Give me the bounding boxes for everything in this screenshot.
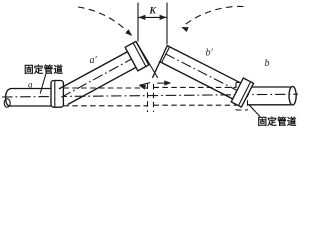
svg-text:固定管道: 固定管道 — [258, 116, 297, 128]
arrowhead of right swing arc — [181, 27, 189, 32]
K dimension left extension line — [137, 3, 139, 42]
svg-text:a: a — [28, 80, 33, 90]
pipe b' end inner ring line — [162, 47, 170, 62]
wire dashed lowered pipe b' bottom edge — [154, 104, 237, 106]
pipe a' lower edge — [68, 67, 138, 105]
svg-text:a′: a′ — [90, 55, 98, 66]
bell coupling on pipe a inner face line — [54, 81, 56, 107]
pipe b' centerline (dash-dot) — [165, 54, 241, 93]
arrowhead of left swing arc — [125, 29, 132, 36]
K dimension left arrowhead — [138, 15, 145, 20]
pipe b' end face line — [152, 45, 167, 78]
pipe b' upper edge — [167, 46, 242, 84]
svg-text:b: b — [265, 58, 270, 69]
bell on a' mouth face line extended — [136, 41, 158, 78]
pipe b' lower edge — [159, 61, 234, 99]
pipe a' upper edge — [59, 51, 129, 89]
K dimension right arrowhead — [160, 15, 167, 20]
wire dashed lowered pipe a' bottom edge — [63, 105, 147, 107]
svg-text:b′: b′ — [206, 48, 214, 59]
bell coupling on pipe b' lower end — [231, 78, 253, 107]
dashed swing arc right — [185, 6, 244, 25]
bell on b' inner face line — [239, 82, 251, 105]
K dimension line — [138, 16, 167, 18]
bell coupling on pipe a — [51, 81, 63, 108]
bell coupling on pipe a' raised end — [125, 41, 149, 71]
pipe a end-face ellipse — [4, 99, 10, 107]
wire dashed lowered bell of b' bottom edge — [236, 109, 248, 111]
bell on a' inner face line — [133, 43, 145, 66]
leader line left 固定管道 — [40, 74, 46, 94]
leader line right 固定管道 — [249, 105, 260, 117]
wire dashed lowered bell of b' top edge — [236, 82, 248, 84]
arrow pointing left at lowered gap — [139, 85, 146, 90]
pipe a body — [6, 89, 51, 107]
wire dashed lowered bell of b' left side — [235, 83, 237, 111]
pipe b body — [248, 87, 291, 105]
wire dashed lowered bell of b' right side — [247, 83, 249, 111]
arrow pointing right at lowered gap — [164, 80, 171, 85]
wire dashed lowered pipe a' end face — [147, 84, 149, 113]
wire horizontal pipe centerline (dash-dot) — [2, 94, 298, 97]
pipe a' centerline (dash-dot) — [61, 57, 135, 97]
pipe b end-face ellipse — [289, 86, 296, 105]
dashed swing arc left — [78, 7, 129, 33]
svg-text:固定管道: 固定管道 — [24, 64, 63, 76]
wire dashed lowered pipe b' end face — [153, 84, 155, 112]
K dimension right extension line — [166, 3, 168, 45]
wire dashed lowered pipe b' top edge — [154, 86, 237, 88]
wire dashed lowered pipe a' top edge — [63, 87, 147, 89]
